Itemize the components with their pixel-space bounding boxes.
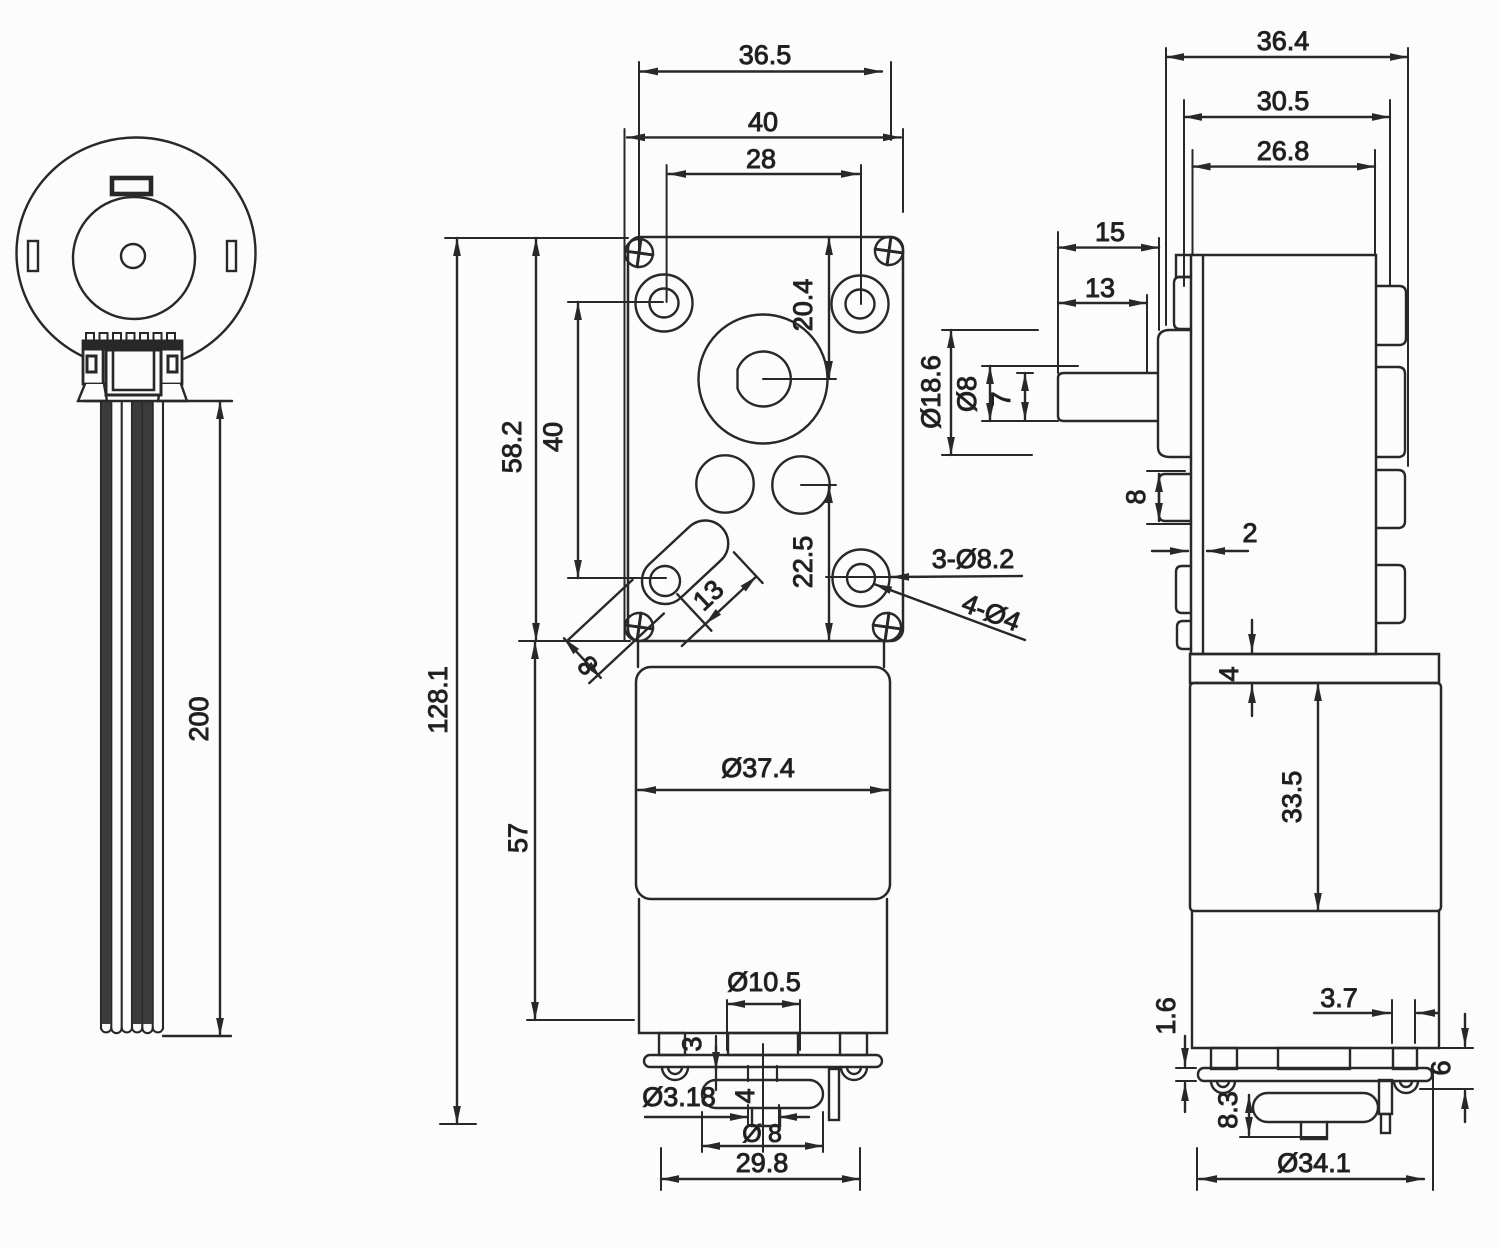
- svg-text:40: 40: [748, 107, 778, 137]
- dim 28 text: [746, 144, 776, 174]
- dim 33.5 text: [1277, 771, 1307, 824]
- dim 4 arrows: [645, 1116, 809, 1118]
- side tab a: [1211, 1048, 1237, 1069]
- dim 7 text: [986, 391, 1016, 406]
- right tab 3: [1376, 470, 1405, 528]
- motor can: [636, 667, 890, 899]
- dim 8.3 line: [1248, 1095, 1250, 1135]
- dim 40 line: [627, 136, 901, 138]
- motor side endbell: [1192, 911, 1439, 1048]
- dim 4 ext: [748, 1105, 779, 1125]
- dim 3 arrows: [715, 1036, 717, 1090]
- leader idler right: [801, 484, 836, 486]
- svg-text:22.5: 22.5: [788, 536, 818, 589]
- connector top bar: [83, 340, 182, 350]
- dim 36.4 line: [1166, 56, 1408, 58]
- dim 22.5 text: [788, 536, 818, 589]
- label d3.18: [642, 1082, 716, 1112]
- output shaft side: [1058, 373, 1158, 421]
- flange screw right: [841, 1067, 867, 1080]
- dim d18 text: [742, 1120, 782, 1148]
- dim 29.8 line: [661, 1178, 860, 1180]
- side pin right: [1379, 1080, 1392, 1133]
- neck right: [883, 641, 885, 667]
- dim d34.1 ext: [1197, 1070, 1433, 1190]
- svg-text:Ø: Ø: [742, 1120, 761, 1148]
- side flange screw right: [1394, 1081, 1418, 1093]
- leader 4-d4: [874, 584, 1025, 640]
- leader 3-d8.2: [891, 576, 1022, 577]
- idler hole right: [772, 456, 829, 513]
- svg-text:26.8: 26.8: [1257, 136, 1310, 166]
- dim 36.5 line: [640, 70, 882, 72]
- dim 3.7 arrows: [1314, 1012, 1438, 1014]
- dim 22.5 line: [828, 485, 830, 641]
- connector left wing: [87, 350, 103, 384]
- dim 8 ticks: [1147, 471, 1190, 524]
- left tab 1: [1174, 277, 1191, 329]
- label 3-d8.2: [932, 544, 1015, 574]
- dim 58.2 line: [535, 238, 537, 641]
- endbell tab right: [840, 1033, 867, 1055]
- pin right of pill: [829, 1069, 839, 1120]
- gearbox face: [628, 237, 903, 641]
- encoder inner circle: [73, 197, 195, 319]
- svg-text:Ø34.1: Ø34.1: [1277, 1148, 1351, 1178]
- svg-text:Ø37.4: Ø37.4: [721, 753, 795, 783]
- side pin center: [1301, 1122, 1327, 1139]
- svg-text:33.5: 33.5: [1277, 771, 1307, 824]
- svg-text:4: 4: [1214, 666, 1244, 681]
- right tab 1: [1376, 286, 1406, 345]
- gearbox top extension: [445, 237, 628, 239]
- motor rear outer circle: [17, 138, 256, 369]
- wire bundle: [101, 401, 163, 1029]
- dim d10.5 text: [727, 967, 801, 997]
- dim d34.1 line: [1199, 1178, 1424, 1180]
- dim 6 ticks: [1420, 1088, 1473, 1090]
- shaft center hole: [121, 244, 145, 268]
- label 4-d4: [958, 588, 1025, 638]
- svg-text:36.4: 36.4: [1257, 26, 1310, 56]
- dim 29.8 ext: [661, 1148, 860, 1190]
- neck left: [637, 641, 639, 667]
- dim 20.4 line: [828, 237, 830, 379]
- svg-text:57: 57: [503, 823, 533, 853]
- connector body: [83, 341, 182, 384]
- dim 4 plate arrows: [1251, 620, 1253, 716]
- dim d18.6 line: [950, 330, 952, 455]
- svg-text:20.4: 20.4: [788, 279, 818, 332]
- svg-text:Ø3.18: Ø3.18: [642, 1082, 716, 1112]
- svg-text:40: 40: [538, 422, 568, 452]
- svg-text:29.8: 29.8: [736, 1148, 789, 1178]
- screw top-left: [623, 237, 655, 269]
- dim 4 text: [730, 1088, 760, 1103]
- dim 40 text: [748, 107, 778, 137]
- motor endbell: [639, 899, 887, 1033]
- dim 8.3 text: [1213, 1091, 1243, 1129]
- dim 128.1 text: [423, 666, 453, 734]
- dim 13 line: [1058, 302, 1147, 304]
- dim 26.8 ext: [1193, 150, 1376, 255]
- connector left skirt: [78, 384, 107, 401]
- side slot pill: [1253, 1093, 1378, 1122]
- dim d37.4 line: [638, 789, 888, 791]
- dim 13 text: [1085, 273, 1115, 303]
- dim 200 line: [219, 401, 221, 1036]
- screw top-right: [873, 235, 905, 267]
- gear case side: [1191, 255, 1376, 654]
- flange bar: [644, 1055, 882, 1067]
- top tab: [112, 178, 151, 194]
- dim d18 ext: [702, 1112, 823, 1152]
- dim 36.5 text: [739, 40, 792, 70]
- dim 13 ext: [1146, 295, 1148, 373]
- dim 15 line: [1058, 246, 1159, 248]
- right side slot: [227, 241, 236, 271]
- dim 8.3 tick: [1240, 1136, 1326, 1138]
- dim 30.5 line: [1184, 116, 1390, 118]
- svg-text:2: 2: [1242, 518, 1257, 548]
- dim 30.5 text: [1257, 86, 1310, 116]
- endbell bottom line: [1439, 1047, 1473, 1049]
- output hub side: [1158, 330, 1191, 457]
- key between flange and pill: [748, 1066, 777, 1081]
- svg-text:58.2: 58.2: [497, 421, 527, 474]
- mount hole top-right: [832, 276, 889, 333]
- svg-text:15: 15: [1095, 217, 1125, 247]
- mount hole bottom-right: [833, 550, 890, 607]
- dim d18.6 ticks: [942, 330, 1038, 455]
- svg-text:30.5: 30.5: [1257, 86, 1310, 116]
- dim 40v text: [538, 422, 568, 452]
- dim d10.5 ext: [727, 1000, 800, 1050]
- left tab 3: [1176, 566, 1191, 613]
- connector center socket: [106, 350, 161, 395]
- dim 8 text: [1121, 489, 1151, 504]
- left tab 4: [1177, 621, 1191, 649]
- svg-text:Ø10.5: Ø10.5: [727, 967, 801, 997]
- dim 36.5 ext right: [890, 62, 892, 140]
- dim 3 text: [677, 1036, 707, 1051]
- dim d8 text: [952, 376, 982, 412]
- dim 6 text: [1426, 1060, 1456, 1075]
- svg-text:200: 200: [184, 696, 214, 741]
- flange screw left: [662, 1067, 688, 1080]
- hole leader top-left: [568, 301, 663, 303]
- svg-text:4: 4: [730, 1088, 760, 1103]
- gearbox bottom extension: [519, 640, 630, 642]
- dim d8 ticks: [982, 366, 1078, 421]
- shaft pin below pill: [752, 1108, 780, 1126]
- screw bottom-right: [871, 611, 903, 643]
- wire rounded ends: [101, 1028, 163, 1033]
- connector crimp bumps: [86, 333, 175, 341]
- left side slot: [28, 241, 38, 271]
- svg-text:8: 8: [768, 1120, 782, 1148]
- dim 128.1 line: [456, 238, 458, 1124]
- dim 8 line: [1158, 474, 1160, 521]
- leader output shaft: [763, 378, 836, 380]
- idler hole left: [696, 455, 753, 512]
- dim 26.8 text: [1257, 136, 1310, 166]
- output slot pill: [702, 1080, 823, 1108]
- left tab 2: [1159, 474, 1191, 521]
- dim d10.5 line: [727, 1003, 800, 1005]
- svg-text:1.6: 1.6: [1151, 997, 1181, 1035]
- dim 128.1 bottom tick: [440, 1123, 476, 1125]
- dim d34.1 text: [1277, 1148, 1351, 1178]
- dim 57 line: [534, 641, 536, 1020]
- dim 58.2 text: [497, 421, 527, 474]
- dim 3.7 text: [1320, 983, 1358, 1013]
- svg-text:3.7: 3.7: [1320, 983, 1358, 1013]
- dim 200 bottom extension line: [163, 1035, 231, 1037]
- dim 4 plate text: [1214, 666, 1244, 681]
- stadium slot: [552, 508, 768, 719]
- side tab b: [1393, 1048, 1417, 1069]
- connector right wing: [161, 350, 177, 384]
- dim 28 ext right: [860, 165, 862, 304]
- mount hole top-left: [636, 275, 693, 332]
- svg-text:6: 6: [1426, 1060, 1456, 1075]
- dim 28 ext left: [666, 165, 668, 302]
- dim 26.8 line: [1193, 165, 1376, 167]
- endbell boss center: [728, 1033, 798, 1055]
- screw bottom-left: [623, 611, 655, 643]
- svg-text:Ø8: Ø8: [952, 376, 982, 412]
- dim d37.4 text: [721, 753, 795, 783]
- dim 40 ext left: [624, 129, 626, 640]
- dim 40 ext right: [902, 129, 904, 212]
- case inner plate line: [1202, 255, 1204, 654]
- dim d18 line: [702, 1145, 823, 1147]
- dim 20.4 text: [788, 279, 818, 332]
- side flange screw left: [1211, 1081, 1235, 1093]
- svg-text:7: 7: [986, 391, 1016, 406]
- dim 36.4 ext: [1166, 48, 1408, 466]
- connector right skirt: [158, 384, 187, 401]
- dim 1.6 text: [1151, 997, 1181, 1035]
- svg-text:3: 3: [677, 1036, 707, 1051]
- dim 28 line: [668, 173, 859, 175]
- dim 3.7 ext: [1392, 1000, 1415, 1043]
- dim 36.4 text: [1257, 26, 1310, 56]
- dim d8 line: [989, 366, 991, 421]
- right tab 2: [1376, 367, 1405, 457]
- dim 30.5 ext: [1184, 100, 1390, 286]
- svg-text:36.5: 36.5: [739, 40, 792, 70]
- svg-text:8.3: 8.3: [1213, 1091, 1243, 1129]
- output shaft D-hole: [738, 352, 791, 407]
- side flange bar: [1198, 1068, 1432, 1081]
- dim 200 top extension line: [84, 400, 232, 402]
- center line: [762, 1044, 764, 1152]
- side boss center: [1278, 1048, 1350, 1069]
- dim 40v line: [577, 302, 579, 578]
- dim 6 arrows: [1464, 1014, 1466, 1122]
- svg-text:13: 13: [1085, 273, 1115, 303]
- dim 1.6 arrows: [1184, 1036, 1186, 1112]
- hole leader stadium: [568, 577, 666, 579]
- hole crosshair: [826, 576, 895, 578]
- svg-text:28: 28: [746, 144, 776, 174]
- dim 57 text: [503, 823, 533, 853]
- dim 7 line: [1024, 373, 1026, 420]
- svg-text:128.1: 128.1: [423, 666, 453, 734]
- case top-left step: [1176, 255, 1191, 277]
- dim 2 arrows: [1152, 550, 1248, 552]
- dim 15 text: [1095, 217, 1125, 247]
- dim 33.5 line: [1317, 683, 1319, 911]
- motor side body: [1190, 683, 1441, 911]
- dim d18.6 text: [916, 355, 946, 429]
- output boss circle: [699, 315, 828, 444]
- svg-text:8: 8: [1121, 489, 1151, 504]
- dim 1.6 ticks: [1176, 1068, 1196, 1081]
- dim 36.5 ext left: [638, 62, 640, 253]
- endbell tab left: [659, 1033, 685, 1055]
- dim 200 text: [184, 696, 214, 741]
- gearcase-motor plate: [1190, 654, 1439, 683]
- svg-text:3-Ø8.2: 3-Ø8.2: [932, 544, 1015, 574]
- dim 15 ext: [1058, 232, 1159, 373]
- svg-text:Ø18.6: Ø18.6: [916, 355, 946, 429]
- dim 29.8 text: [736, 1148, 789, 1178]
- dim 7 tick: [1017, 372, 1033, 374]
- dark wires: [102, 402, 152, 1024]
- dim 2 text: [1242, 518, 1257, 548]
- right tab 4: [1376, 565, 1405, 623]
- dim 57 bottom tick: [527, 1019, 634, 1021]
